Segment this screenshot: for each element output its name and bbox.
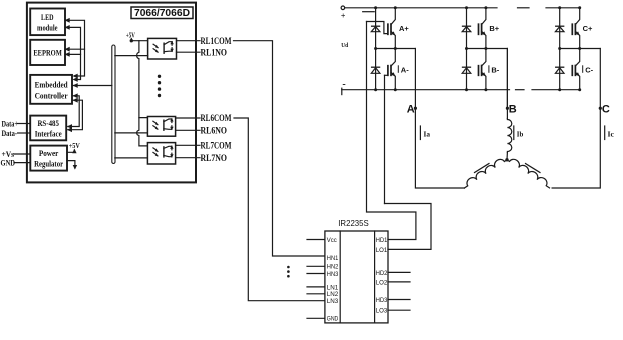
svg-text:EEPROM: EEPROM [33, 48, 62, 58]
svg-text:C: C [602, 103, 610, 115]
svg-text:RL7NO: RL7NO [201, 153, 228, 163]
svg-text:Interface: Interface [35, 129, 62, 139]
svg-text:RL1NO: RL1NO [201, 47, 228, 57]
svg-text:RS-485: RS-485 [37, 118, 59, 128]
svg-text:Embedded: Embedded [35, 80, 68, 90]
svg-text:IR2235S: IR2235S [338, 218, 369, 228]
svg-text:-: - [342, 79, 345, 90]
svg-text:Data-: Data- [2, 129, 18, 138]
svg-text:B-: B- [491, 65, 499, 74]
svg-text:LO3: LO3 [376, 308, 388, 315]
svg-text:Regulator: Regulator [34, 159, 63, 169]
svg-text:HD2: HD2 [376, 270, 388, 277]
svg-text:GND: GND [327, 316, 339, 323]
svg-text:A-: A- [401, 65, 409, 74]
svg-text:LED: LED [41, 12, 54, 22]
svg-text:HD1: HD1 [376, 237, 388, 244]
svg-text:Ic: Ic [608, 131, 615, 139]
svg-text:LN3: LN3 [327, 298, 339, 305]
svg-text:A+: A+ [399, 24, 409, 33]
svg-text:Ib: Ib [517, 131, 524, 139]
svg-text:Ud: Ud [341, 42, 348, 49]
svg-text:Ia: Ia [424, 131, 431, 139]
svg-text:GND: GND [1, 159, 16, 168]
svg-text:Vcc: Vcc [327, 237, 338, 244]
svg-text:LO1: LO1 [376, 247, 388, 254]
svg-text:HN1: HN1 [327, 255, 339, 262]
svg-text:HN3: HN3 [327, 271, 339, 278]
svg-text:Controller: Controller [35, 91, 68, 101]
svg-text:+: + [341, 11, 346, 20]
svg-text:B: B [509, 103, 517, 115]
svg-text:module: module [37, 23, 58, 33]
svg-text:B+: B+ [489, 24, 499, 33]
svg-text:HD3: HD3 [376, 297, 388, 304]
svg-text:RL7COM: RL7COM [201, 140, 232, 150]
svg-text:C-: C- [585, 65, 593, 74]
svg-text:+5V: +5V [126, 30, 135, 39]
svg-text:A: A [407, 103, 415, 115]
svg-text:RL6NO: RL6NO [201, 126, 228, 136]
svg-text:Data+: Data+ [2, 120, 19, 129]
svg-text:LO2: LO2 [376, 279, 388, 286]
svg-text:RL6COM: RL6COM [201, 113, 232, 123]
svg-text:+5V: +5V [69, 141, 81, 150]
svg-text:7066/7066D: 7066/7066D [134, 8, 190, 19]
svg-text:HN2: HN2 [327, 264, 339, 271]
svg-text:C+: C+ [583, 24, 593, 33]
svg-text:RL1COM: RL1COM [201, 36, 232, 46]
svg-text:Power: Power [39, 148, 59, 158]
